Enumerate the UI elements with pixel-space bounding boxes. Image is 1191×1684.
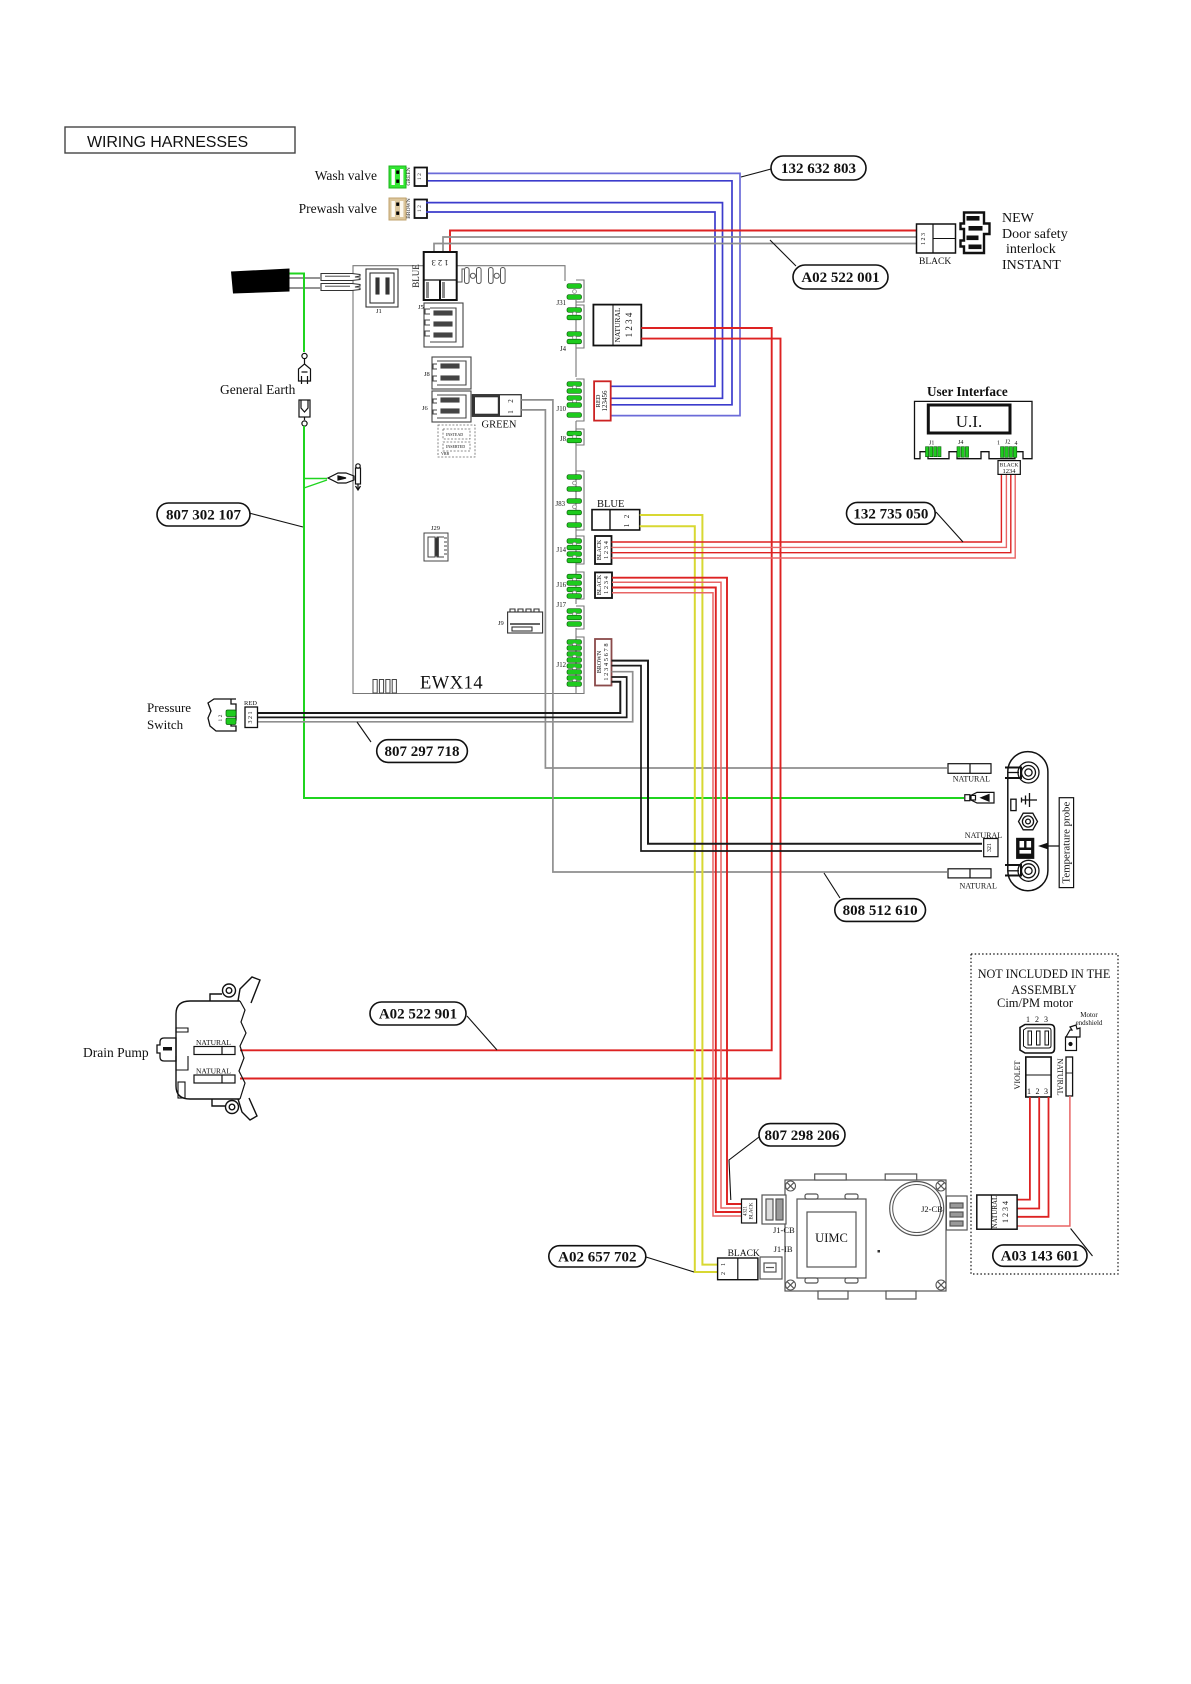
svg-text:General Earth: General Earth bbox=[220, 382, 296, 397]
connector NATURAL 1234 motor bbox=[977, 1195, 1017, 1229]
leader A02 522 901 bbox=[467, 1016, 497, 1050]
wire-end spade NATURAL top bbox=[948, 764, 991, 774]
wire green earth main bbox=[290, 274, 305, 353]
svg-text:J31: J31 bbox=[557, 300, 566, 307]
wire red UIMC 3 bbox=[612, 588, 742, 1213]
svg-text:J83: J83 bbox=[556, 501, 566, 508]
mains cable black blob bbox=[231, 269, 290, 294]
svg-text:NATURAL: NATURAL bbox=[613, 307, 622, 342]
svg-text:NEW: NEW bbox=[1002, 211, 1035, 226]
board bottom marks bbox=[373, 680, 396, 694]
svg-text:Door safety: Door safety bbox=[1002, 227, 1068, 242]
svg-text:J29: J29 bbox=[431, 525, 440, 532]
svg-text:INSERTED: INSERTED bbox=[446, 444, 465, 449]
svg-text:3: 3 bbox=[1044, 1015, 1048, 1024]
svg-text:2: 2 bbox=[1035, 1015, 1039, 1024]
drain pump bbox=[157, 977, 260, 1120]
svg-text:132 632 803: 132 632 803 bbox=[781, 161, 856, 177]
board edge pins bbox=[567, 280, 584, 694]
svg-text:132 735 050: 132 735 050 bbox=[853, 506, 928, 522]
label oval 132 632 803 bbox=[771, 156, 866, 180]
svg-text:1: 1 bbox=[721, 1263, 727, 1266]
svg-text:2: 2 bbox=[721, 1272, 727, 1275]
svg-text:NATURAL: NATURAL bbox=[991, 1196, 999, 1229]
label oval 807 298 206 bbox=[759, 1124, 845, 1146]
svg-text:User Interface: User Interface bbox=[927, 384, 1008, 399]
UIMC box bbox=[785, 1174, 946, 1299]
connector GREEN J10 bbox=[472, 395, 521, 431]
title box WIRING HARNESSES bbox=[65, 127, 295, 153]
motor connector 123 bbox=[1026, 1015, 1048, 1024]
svg-text:807 298 206: 807 298 206 bbox=[765, 1128, 841, 1144]
svg-text:1 2 3 4: 1 2 3 4 bbox=[603, 540, 610, 559]
wire grey green-conn 2 bbox=[521, 410, 947, 768]
board fuse symbols bbox=[457, 267, 505, 284]
wire black pressure 1 bbox=[257, 682, 620, 713]
svg-text:VRB: VRB bbox=[441, 451, 450, 456]
label Temperature probe bbox=[1059, 798, 1073, 888]
svg-text:J6: J6 bbox=[422, 405, 429, 412]
connector J1 bbox=[366, 269, 398, 307]
connector J8 bbox=[432, 357, 471, 389]
wire red drainpump 1 bbox=[235, 328, 772, 1050]
probe earth symbol bbox=[1011, 793, 1037, 811]
label oval A03 143 601 bbox=[993, 1245, 1087, 1266]
svg-text:interlock: interlock bbox=[1006, 242, 1056, 257]
svg-text:1234: 1234 bbox=[1003, 468, 1017, 475]
svg-text:J2: J2 bbox=[1005, 440, 1010, 446]
svg-text:2: 2 bbox=[623, 514, 631, 518]
svg-text:2: 2 bbox=[507, 399, 515, 403]
wire grey pressure 3 bbox=[257, 672, 633, 722]
svg-text:J17: J17 bbox=[557, 602, 567, 609]
leader A02 657 702 bbox=[646, 1257, 694, 1272]
wire black tempsensor 2 bbox=[612, 666, 983, 851]
svg-text:endshield: endshield bbox=[1076, 1019, 1103, 1027]
leader A02 522 001 bbox=[770, 240, 796, 266]
svg-text:BLUE: BLUE bbox=[411, 264, 421, 288]
svg-text:Pressure: Pressure bbox=[147, 700, 191, 715]
wire blue wash1 bbox=[428, 173, 740, 415]
svg-text:VIOLET: VIOLET bbox=[1013, 1060, 1022, 1089]
connector J6 bbox=[432, 391, 471, 422]
svg-text:123456: 123456 bbox=[601, 390, 609, 412]
svg-text:Drain Pump: Drain Pump bbox=[83, 1045, 149, 1060]
svg-text:J1: J1 bbox=[376, 308, 382, 315]
wire red endshield bbox=[1017, 1096, 1070, 1226]
wire to J1 b bbox=[290, 287, 321, 289]
wire green earth branch to crimp bbox=[304, 478, 327, 480]
svg-text:J16: J16 bbox=[557, 582, 567, 589]
svg-text:Wash valve: Wash valve bbox=[315, 168, 377, 183]
wire grey interlock 2 bbox=[434, 244, 917, 253]
svg-text:BLUE: BLUE bbox=[597, 499, 624, 510]
svg-text:807 302 107: 807 302 107 bbox=[166, 508, 242, 524]
UIMC circle J2-CB bbox=[890, 1182, 944, 1236]
probe sensor connector bbox=[1016, 838, 1034, 859]
connector J5 bbox=[424, 303, 463, 347]
wire blue prewash2 bbox=[426, 212, 715, 386]
svg-text:NATURAL: NATURAL bbox=[196, 1038, 231, 1047]
svg-text:1 2: 1 2 bbox=[417, 173, 423, 180]
terminal pair to J1 bbox=[321, 274, 360, 291]
label oval 807 302 107 bbox=[157, 503, 250, 526]
wire blue wash2 bbox=[428, 181, 732, 405]
connector J2-CB external bbox=[946, 1196, 967, 1230]
wire red UI 2 bbox=[612, 474, 1007, 547]
label oval 808 512 610 bbox=[835, 899, 926, 922]
wire yellow 2 bbox=[640, 526, 718, 1272]
wire red drainpump 2 bbox=[235, 339, 781, 1079]
svg-text:4: 4 bbox=[1015, 441, 1018, 447]
svg-text:2: 2 bbox=[1036, 1087, 1040, 1096]
label oval 132 735 050 bbox=[847, 502, 936, 524]
svg-text:321: 321 bbox=[987, 843, 993, 852]
svg-text:A02 522 001: A02 522 001 bbox=[801, 270, 879, 286]
svg-text:GREEN: GREEN bbox=[482, 420, 517, 431]
svg-text:RED: RED bbox=[244, 700, 257, 707]
wire red interlock bbox=[450, 231, 917, 253]
svg-text:J10: J10 bbox=[557, 406, 567, 413]
earth male terminal bbox=[299, 353, 311, 384]
temperature probe body bbox=[1008, 752, 1048, 891]
svg-text:1 2: 1 2 bbox=[218, 714, 224, 721]
svg-text:3: 3 bbox=[1044, 1087, 1048, 1096]
wire black tempsensor 1 bbox=[612, 661, 983, 844]
wire red UI 3 bbox=[612, 474, 1011, 552]
svg-text:3 2 1: 3 2 1 bbox=[248, 712, 254, 724]
svg-text:Prewash valve: Prewash valve bbox=[299, 201, 377, 216]
svg-text:1: 1 bbox=[1026, 1015, 1030, 1024]
connector BLACK 1234 UI bbox=[998, 461, 1020, 475]
connector BLACK 123 door interlock bbox=[917, 224, 956, 267]
leader 807 298 206 bbox=[729, 1137, 759, 1200]
svg-text:Switch: Switch bbox=[147, 717, 184, 732]
wire-end spade NATURAL bottom bbox=[948, 869, 991, 878]
wire to J1 a bbox=[290, 277, 321, 279]
svg-text:A02 522 901: A02 522 901 bbox=[379, 1007, 457, 1023]
earth crimp splice bbox=[328, 464, 361, 490]
svg-text:J1-IB: J1-IB bbox=[774, 1244, 793, 1254]
svg-text:1: 1 bbox=[507, 410, 515, 414]
prewash valve bbox=[299, 198, 427, 220]
svg-text:ASSEMBLY: ASSEMBLY bbox=[1011, 983, 1076, 997]
svg-text:NOT INCLUDED IN THE: NOT INCLUDED IN THE bbox=[978, 967, 1111, 981]
green earth terminal bbox=[965, 792, 994, 803]
wire red UIMC 1 bbox=[612, 578, 742, 1204]
svg-text:BLACK: BLACK bbox=[919, 257, 951, 267]
leader 808 512 610 bbox=[824, 873, 840, 898]
svg-text:BLACK: BLACK bbox=[750, 1202, 755, 1219]
probe hex nut bbox=[1019, 813, 1038, 830]
wire red motor 1 bbox=[1017, 1097, 1030, 1200]
probe top terminal bbox=[1005, 762, 1039, 783]
connector NATURAL 1234 J4 bbox=[593, 305, 641, 346]
svg-text:1: 1 bbox=[1027, 1087, 1031, 1096]
svg-text:J9: J9 bbox=[498, 620, 504, 627]
svg-text:A03 143 601: A03 143 601 bbox=[1001, 1249, 1079, 1265]
wire red UI 1 bbox=[612, 474, 1002, 542]
svg-text:INSTEAD: INSTEAD bbox=[446, 432, 463, 437]
label oval A02 522 901 bbox=[370, 1002, 466, 1025]
probe bottom terminal bbox=[1005, 860, 1039, 881]
connector BLACK 1234 J16 bbox=[595, 572, 612, 598]
wire red motor 3 bbox=[1017, 1097, 1048, 1217]
label oval 807 297 718 bbox=[377, 740, 468, 763]
svg-text:INSTANT: INSTANT bbox=[1002, 258, 1061, 273]
connector BLUE J83 bbox=[592, 499, 640, 530]
svg-text:1 2 3 4: 1 2 3 4 bbox=[624, 312, 634, 337]
svg-text:NATURAL: NATURAL bbox=[1056, 1058, 1065, 1095]
wire red UIMC 4 bbox=[612, 593, 742, 1216]
svg-text:J1-CB: J1-CB bbox=[773, 1225, 795, 1235]
connector BLACK 4321 bbox=[742, 1199, 757, 1223]
svg-text:J4: J4 bbox=[958, 440, 963, 446]
connector BROWN 12345678 J12 bbox=[595, 639, 612, 686]
endshield symbol bbox=[1066, 1025, 1081, 1051]
probe pointer arrow bbox=[1042, 845, 1059, 847]
door safety interlock symbol bbox=[961, 213, 990, 254]
wash valve bbox=[315, 166, 427, 188]
svg-text:A02 657 702: A02 657 702 bbox=[558, 1249, 636, 1265]
label NEW door safety interlock INSTANT bbox=[1002, 211, 1068, 273]
svg-text:1: 1 bbox=[997, 441, 1000, 447]
svg-text:1 2 3 4: 1 2 3 4 bbox=[603, 575, 610, 594]
svg-text:808 512 610: 808 512 610 bbox=[843, 903, 918, 919]
svg-text:4321: 4321 bbox=[744, 1206, 749, 1217]
svg-text:GREEN: GREEN bbox=[406, 167, 412, 185]
svg-text:Temperature probe: Temperature probe bbox=[1061, 802, 1073, 884]
wire red UIMC 2 bbox=[612, 582, 742, 1208]
U.I. box bbox=[928, 405, 1010, 433]
wire green earth branch diagonal bbox=[304, 480, 327, 488]
svg-text:Cim/PM motor: Cim/PM motor bbox=[997, 996, 1074, 1010]
dashed config box bbox=[438, 425, 475, 457]
connector NATURAL endshield bbox=[1066, 1057, 1073, 1096]
svg-text:807 297 718: 807 297 718 bbox=[385, 744, 460, 760]
svg-text:J14: J14 bbox=[557, 547, 567, 554]
leader A03 143 601 bbox=[1071, 1229, 1093, 1257]
leader 807 302 107 bbox=[249, 513, 303, 527]
svg-text:U.I.: U.I. bbox=[956, 412, 982, 431]
pressure switch bbox=[208, 699, 236, 731]
connector J1-CB bbox=[762, 1195, 786, 1224]
earth female terminal bbox=[299, 400, 310, 426]
wire red motor 2 bbox=[1017, 1097, 1039, 1209]
wire green earth cont bbox=[304, 426, 964, 798]
label oval A02 522 001 bbox=[793, 265, 888, 289]
svg-text:1 2 3 4: 1 2 3 4 bbox=[1001, 1201, 1010, 1223]
svg-text:BROWN: BROWN bbox=[406, 198, 412, 219]
svg-text:1 2 3 4 5 6 7 8: 1 2 3 4 5 6 7 8 bbox=[603, 643, 610, 680]
svg-text:Motor: Motor bbox=[1080, 1011, 1098, 1019]
leader 132 735 050 bbox=[936, 512, 963, 542]
wire yellow 1 bbox=[640, 515, 718, 1265]
wire red UI 4 bbox=[612, 474, 1016, 558]
wire grey green-conn 1 bbox=[521, 400, 947, 872]
EWX14 board outline bbox=[353, 266, 576, 694]
wire blue prewash1 bbox=[426, 203, 723, 399]
svg-text:WIRING HARNESSES: WIRING HARNESSES bbox=[87, 134, 248, 151]
svg-text:J2-CB: J2-CB bbox=[921, 1204, 943, 1214]
svg-text:J12: J12 bbox=[557, 662, 567, 669]
svg-text:J5: J5 bbox=[418, 304, 424, 311]
svg-text:1 2: 1 2 bbox=[417, 205, 423, 212]
dashed box NOT INCLUDED bbox=[971, 954, 1118, 1274]
svg-text:NATURAL: NATURAL bbox=[953, 775, 990, 784]
connector BLACK 1234 J14 bbox=[595, 536, 612, 564]
svg-text:NATURAL: NATURAL bbox=[196, 1067, 231, 1076]
connector BLUE 123 power bbox=[411, 252, 457, 300]
svg-text:UIMC: UIMC bbox=[815, 1231, 848, 1245]
svg-text:J8: J8 bbox=[424, 371, 430, 378]
svg-text:J4: J4 bbox=[560, 346, 567, 353]
UIMC screws bbox=[786, 1181, 947, 1290]
svg-text:1 2 3: 1 2 3 bbox=[432, 258, 449, 268]
svg-text:J8: J8 bbox=[560, 436, 567, 443]
leader 132 632 803 bbox=[741, 169, 771, 177]
svg-text:J1: J1 bbox=[929, 441, 934, 447]
connector RED 123456 bbox=[594, 381, 611, 420]
svg-text:1: 1 bbox=[623, 523, 631, 527]
label oval A02 657 702 bbox=[549, 1246, 646, 1267]
svg-text:1 2 3: 1 2 3 bbox=[921, 233, 927, 245]
wire grey interlock 1 bbox=[443, 237, 917, 252]
wire black pressure 2 bbox=[257, 677, 627, 717]
svg-text:NATURAL: NATURAL bbox=[960, 882, 997, 891]
svg-text:EWX14: EWX14 bbox=[420, 674, 483, 694]
leader 807 297 718 bbox=[357, 722, 371, 742]
